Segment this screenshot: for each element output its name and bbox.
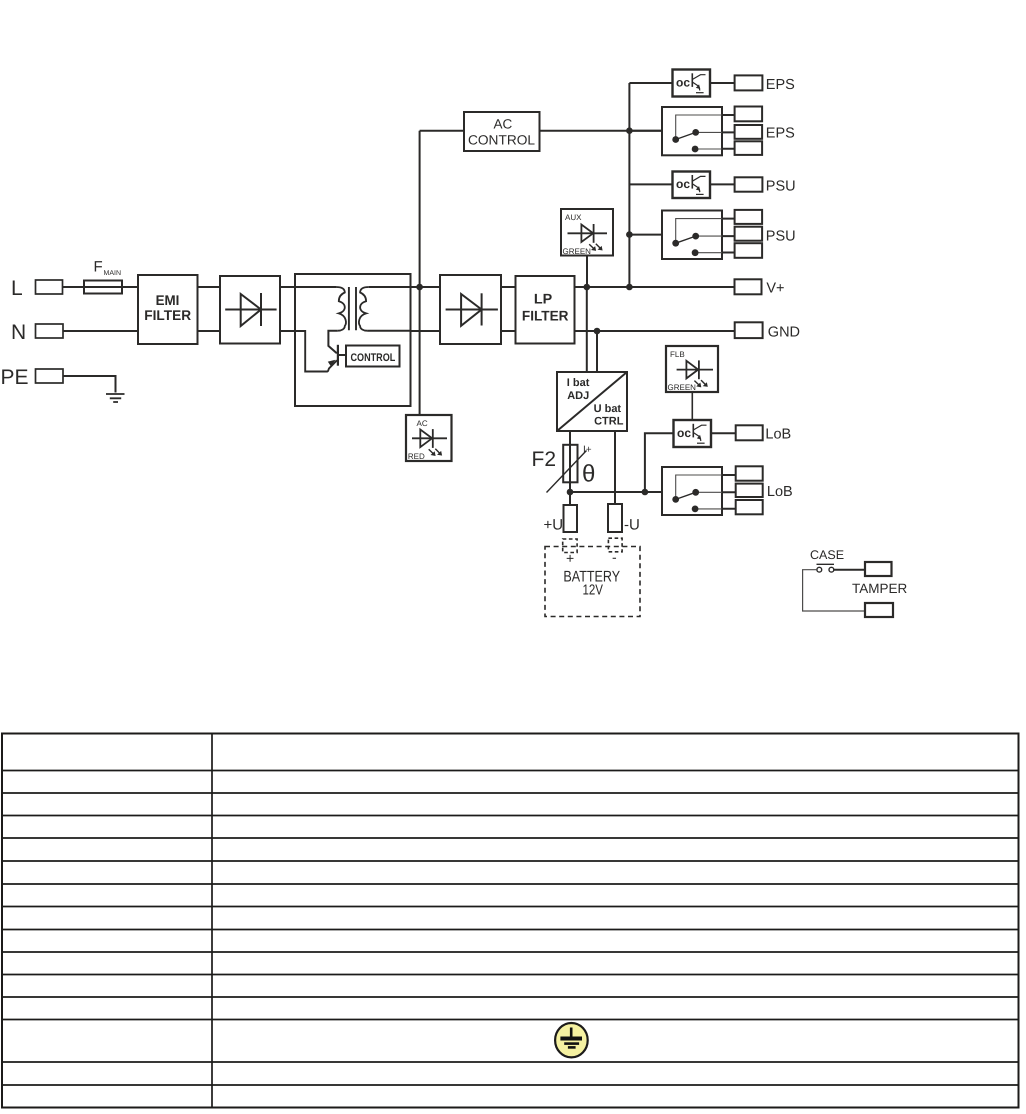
FLB GREEN LED indicator xyxy=(666,346,718,392)
wire L to fuse and EMI filter xyxy=(63,286,139,288)
terminal EPS relay NC xyxy=(735,141,763,155)
terminal EPS relay COM xyxy=(735,125,795,141)
terminal PE xyxy=(1,366,64,389)
OC block U2 (EPS open collector) xyxy=(673,70,711,97)
svg-text:GREEN: GREEN xyxy=(668,383,697,392)
wire PSU OC to terminal xyxy=(710,183,735,185)
terminal PSU relay NO xyxy=(735,210,763,224)
terminal TAMPER (top) xyxy=(852,562,908,596)
battery 12V (dashed outline) xyxy=(545,547,640,617)
wire trunk to PSU relay xyxy=(629,234,662,236)
terminal +U xyxy=(544,505,578,534)
svg-text:TAMPER: TAMPER xyxy=(852,581,908,596)
svg-text:LP: LP xyxy=(534,291,552,307)
wire AC CONTROL output to EPS branch xyxy=(540,130,663,132)
wire LoB OC to terminal xyxy=(711,432,736,434)
wire primary bottom to switching transistor collector xyxy=(328,331,337,354)
relay K1 (EPS) xyxy=(662,107,722,155)
AC RED LED indicator xyxy=(406,415,452,461)
svg-text:GND: GND xyxy=(768,324,800,340)
terminal PSU relay COM xyxy=(735,227,796,245)
wire AC CONTROL input xyxy=(420,130,464,132)
svg-text:CASE: CASE xyxy=(810,548,844,562)
terminal EPS relay NO xyxy=(735,107,763,122)
svg-text:ADJ: ADJ xyxy=(567,390,589,402)
output rectifier diode D2 xyxy=(440,275,501,344)
svg-text:N: N xyxy=(11,321,26,344)
svg-text:+U: +U xyxy=(544,517,564,534)
battery - terminal pad xyxy=(608,538,622,552)
terminal GND xyxy=(735,322,800,340)
wire LoB OC branch xyxy=(645,433,674,492)
transformer / converter block outer box xyxy=(295,274,411,406)
wire rectifier to transformer (top rail) xyxy=(280,286,295,288)
AUX GREEN LED indicator xyxy=(561,209,613,256)
terminal L xyxy=(11,277,63,300)
OC block U3 (PSU open collector) xyxy=(673,172,711,199)
node: battery + junction xyxy=(567,489,574,496)
wire top rail into primary winding xyxy=(295,286,336,288)
svg-text:U bat: U bat xyxy=(594,403,622,415)
svg-text:PSU: PSU xyxy=(766,178,796,194)
OC block U4 (LoB open collector) xyxy=(674,420,712,447)
wire transformer to output rectifier (top rail), with AC-sense junction xyxy=(411,286,441,288)
svg-text:12V: 12V xyxy=(583,583,604,599)
wire transformer to output rectifier (bottom rail) xyxy=(411,330,441,332)
svg-text:AUX: AUX xyxy=(565,213,582,222)
wire rectifier to transformer (bottom rail) xyxy=(280,330,295,332)
transformer primary winding xyxy=(336,287,346,331)
LP FILTER block xyxy=(516,276,575,344)
node: trunk to EPS relay xyxy=(626,127,633,134)
wire relay contacts to EPS terminals xyxy=(722,115,735,149)
svg-text:FLB: FLB xyxy=(670,350,685,359)
terminal LoB relay COM xyxy=(736,484,793,500)
svg-text:θ: θ xyxy=(582,461,595,488)
svg-text:CONTROL: CONTROL xyxy=(468,132,535,147)
svg-text:oc: oc xyxy=(676,177,690,191)
svg-text:-U: -U xyxy=(624,517,640,534)
wire secondary to box edge (top rail) xyxy=(369,286,411,288)
wire V+ rail xyxy=(575,286,735,288)
wire rectifier to LP filter (bottom rail) xyxy=(501,330,516,332)
fuse F MAIN xyxy=(84,259,122,294)
wire EPS OC to terminal xyxy=(710,82,735,84)
svg-text:oc: oc xyxy=(677,426,691,440)
tamper switch CASE xyxy=(810,548,844,572)
terminal LoB relay NO xyxy=(736,466,763,480)
wire battery - leg xyxy=(614,431,616,504)
svg-text:AC: AC xyxy=(494,117,513,132)
transistor Q1 base bar xyxy=(337,345,339,366)
svg-text:FILTER: FILTER xyxy=(522,308,569,324)
svg-text:I+: I+ xyxy=(583,445,592,456)
svg-text:PE: PE xyxy=(1,366,29,389)
node: trunk to PSU relay xyxy=(626,231,633,238)
wire battery + leg through fuse F2 xyxy=(569,431,571,505)
terminal PSU (OC output) xyxy=(735,177,796,194)
wire N to EMI filter xyxy=(63,330,138,332)
terminal EPS (OC output) xyxy=(735,75,795,93)
svg-text:CTRL: CTRL xyxy=(594,415,624,427)
svg-text:CONTROL: CONTROL xyxy=(351,352,396,364)
relay K3 (LoB) xyxy=(662,467,722,515)
svg-text:RED: RED xyxy=(408,452,425,461)
svg-text:V+: V+ xyxy=(766,281,784,297)
CONTROL block xyxy=(346,346,400,367)
svg-text:FILTER: FILTER xyxy=(144,307,191,323)
svg-text:L: L xyxy=(11,277,23,300)
wire rectifier to LP filter (top rail) xyxy=(501,286,516,288)
wire PE to earth xyxy=(63,376,116,393)
terminal LoB relay NC xyxy=(736,500,763,514)
wire I bat feed from V+ junction xyxy=(586,287,588,372)
wire EMI to rectifier (top rail) xyxy=(198,286,221,288)
EMI FILTER block xyxy=(138,275,198,344)
wire relay contacts to LoB terminals xyxy=(722,475,736,509)
wire GND rail xyxy=(575,330,735,332)
wire trunk to PSU OC xyxy=(629,183,672,185)
svg-text:I bat: I bat xyxy=(567,377,590,389)
svg-text:LoB: LoB xyxy=(767,484,793,500)
node: AUX LED junction on V+ rail xyxy=(584,284,591,291)
wire FLB LED to LoB OC xyxy=(691,392,693,420)
terminal -U xyxy=(608,504,640,534)
table (specification grid) xyxy=(2,734,1019,1108)
terminal N xyxy=(11,321,63,344)
wire trunk to EPS OC xyxy=(629,82,672,84)
protective earth symbol (yellow badge in table) xyxy=(555,1023,588,1057)
node: output trunk junction on V+ rail xyxy=(626,284,633,291)
node: LoB branch junction xyxy=(642,489,649,496)
transformer secondary winding xyxy=(359,287,369,331)
svg-text:-: - xyxy=(612,549,617,565)
svg-text:LoB: LoB xyxy=(765,426,791,442)
node: U bat junction on GND rail xyxy=(594,328,601,335)
wire base to CONTROL xyxy=(338,354,346,356)
relay K2 (PSU) xyxy=(662,211,722,260)
fuse F2 (thermal) xyxy=(532,445,596,493)
wire tamper return loop xyxy=(803,570,865,611)
bridge rectifier D1 xyxy=(220,276,280,344)
wire relay contacts to PSU terminals xyxy=(722,219,735,253)
svg-text:MAIN: MAIN xyxy=(104,270,122,277)
ground (protective earth) xyxy=(106,394,125,402)
terminal PSU relay NC xyxy=(735,243,763,258)
svg-text:PSU: PSU xyxy=(766,229,796,245)
svg-text:EPS: EPS xyxy=(766,125,795,141)
svg-text:AC: AC xyxy=(417,419,428,428)
wire tamper switch to terminal xyxy=(834,569,865,571)
wire output trunk (EPS/PSU feed) xyxy=(628,83,630,287)
transistor Q1 emitter arrowhead xyxy=(329,361,335,366)
terminal LoB (OC output) xyxy=(736,425,792,442)
terminal V+ xyxy=(735,279,785,296)
wire battery rail to LoB relay xyxy=(570,491,662,493)
transformer core xyxy=(349,287,356,330)
wire AC sense trunk (AC CONTROL down to AC LED) xyxy=(419,131,421,415)
AC CONTROL block xyxy=(464,112,540,151)
svg-text:oc: oc xyxy=(676,76,690,90)
I bat ADJ / U bat CTRL block xyxy=(557,372,627,431)
wire AUX LED to V+ rail xyxy=(586,256,588,288)
svg-text:+: + xyxy=(566,550,574,566)
wire secondary to box edge (bottom rail) xyxy=(367,330,410,332)
wire bottom rail into transistor emitter xyxy=(295,331,337,372)
terminal TAMPER (bottom) xyxy=(865,603,893,617)
svg-text:F2: F2 xyxy=(532,448,557,471)
node: AC sense junction xyxy=(416,284,423,291)
battery + terminal pad xyxy=(563,539,577,553)
svg-text:F: F xyxy=(94,259,103,276)
svg-text:EMI: EMI xyxy=(156,292,180,308)
svg-text:GREEN: GREEN xyxy=(563,247,592,256)
wire trunk to EPS relay xyxy=(629,130,662,132)
svg-text:EPS: EPS xyxy=(766,77,795,93)
wire U bat feed from GND junction xyxy=(596,331,598,372)
wire EMI to rectifier (bottom rail) xyxy=(198,330,221,332)
